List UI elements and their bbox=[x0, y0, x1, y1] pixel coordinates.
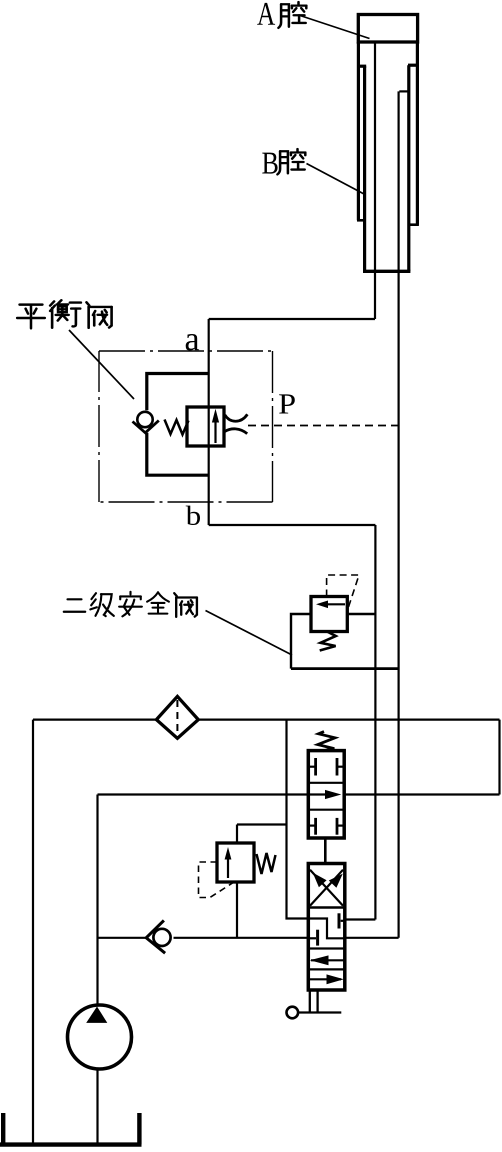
valve U1 spring top bbox=[318, 732, 335, 751]
wire tank return line left part bbox=[33, 718, 156, 720]
cylinder left upper step bbox=[358, 65, 366, 68]
wire A-line port right-top bbox=[345, 918, 376, 920]
cell3 arrow left bbox=[311, 959, 344, 961]
relief arrow left bbox=[324, 603, 345, 605]
valve U1 body bbox=[308, 751, 344, 838]
relief2 square bbox=[217, 843, 254, 882]
filter bbox=[156, 696, 198, 738]
relief2 spring W bbox=[257, 853, 276, 874]
wire B-pipe long vertical bbox=[398, 91, 400, 937]
label A腔 bbox=[257, 3, 275, 25]
cylinder left inner wall bbox=[363, 66, 366, 271]
cylinder right lower step bbox=[409, 223, 419, 226]
valve U1 top cell blocked ports bbox=[308, 766, 315, 768]
valve U1 divider 2 bbox=[308, 809, 344, 811]
valve U1 middle arrow bbox=[308, 793, 333, 795]
Z cell path bbox=[308, 919, 345, 939]
relief valve square bbox=[311, 597, 347, 632]
cell4 arrow right bbox=[309, 978, 341, 980]
wire left feed vertical bbox=[287, 720, 309, 919]
relief2 pilot dashed bbox=[199, 862, 233, 898]
leader B bbox=[307, 164, 365, 195]
check valve V1 seat bbox=[133, 421, 159, 433]
relief spring bbox=[320, 632, 336, 651]
lever stem lines bbox=[309, 990, 311, 1013]
wire relief2 top stub bbox=[236, 825, 238, 844]
wire left vertical to tank bbox=[32, 720, 34, 1146]
label 平衡阀 bbox=[17, 305, 45, 329]
wire A-line down to valve port bbox=[374, 525, 376, 920]
cylinder right inner wall bbox=[407, 65, 410, 271]
valve U2 divider 3 bbox=[308, 968, 345, 970]
balance valve enclosure chain box bbox=[99, 350, 273, 352]
wire supply line left segment bbox=[98, 793, 309, 795]
cylinder left outer wall bbox=[357, 42, 360, 220]
spring balance valve bbox=[165, 420, 189, 435]
wire relief outlet left bbox=[291, 614, 311, 669]
balance pilot valve square bbox=[187, 407, 224, 446]
valve U1 divider 1 bbox=[308, 782, 344, 784]
relief pilot dashed bbox=[327, 575, 359, 611]
wire pump riser bbox=[96, 795, 98, 1006]
wire pump delivery line bbox=[98, 937, 146, 939]
cylinder right upper step bbox=[408, 64, 417, 67]
cylinder cap rect bbox=[358, 15, 417, 43]
wire pump suction bbox=[96, 1069, 98, 1146]
cylinder bottom bbox=[363, 270, 410, 273]
arrow up inside balance valve bbox=[214, 419, 216, 443]
wire tank return line right part bbox=[198, 718, 499, 720]
lever knob circle bbox=[287, 1007, 299, 1019]
wire relief2 bottom stub bbox=[236, 882, 238, 938]
leader 平衡阀 bbox=[69, 330, 134, 399]
label 二级安全阀 bbox=[64, 599, 86, 611]
valve U1 bottom cell blocked ports bbox=[308, 824, 315, 826]
pump triangle bbox=[86, 1007, 107, 1023]
wire balance valve bottom to A-line bbox=[209, 524, 376, 526]
wire A to balance valve top bbox=[209, 318, 375, 320]
relief2 arrow up bbox=[227, 854, 229, 878]
wire relief outlet bottom to B-line bbox=[291, 667, 399, 670]
X cell diagonals bbox=[310, 870, 343, 906]
leader A bbox=[300, 16, 370, 39]
wire relief inlet bbox=[347, 613, 375, 615]
valve U2 divider 2 bbox=[308, 947, 345, 949]
wire supply line right segment bbox=[344, 793, 499, 795]
check valve V1 ball bbox=[137, 412, 152, 427]
wire branch pilot top bbox=[237, 823, 287, 825]
cylinder inner shoulder bbox=[399, 90, 408, 92]
node a bbox=[186, 334, 199, 351]
cylinder left lower step bbox=[357, 219, 365, 222]
leader 二级安全阀 bbox=[206, 611, 293, 656]
valve U2 divider X-cell bbox=[308, 906, 345, 909]
label B腔 bbox=[262, 153, 277, 174]
wire right vertical bbox=[498, 720, 500, 795]
pump circle bbox=[68, 1005, 132, 1069]
wire A-pipe from cap down bbox=[374, 42, 376, 319]
cylinder right outer wall bbox=[416, 42, 419, 225]
wire balance valve main vertical bbox=[208, 319, 210, 525]
wire pilot connector U1 to U2 bbox=[324, 838, 327, 864]
Z cell blocked port left-bottom bbox=[308, 937, 316, 939]
throttle wings bbox=[225, 414, 248, 421]
node P bbox=[279, 394, 295, 413]
Z cell blocked port right-top bbox=[341, 920, 345, 922]
node b bbox=[186, 506, 200, 525]
lever arm bbox=[299, 1011, 342, 1013]
pilot dashed line P bbox=[248, 425, 399, 427]
valve U2 body bbox=[308, 864, 345, 991]
balance valve body loop bbox=[147, 374, 209, 476]
wire B-line port right-bottom bbox=[345, 937, 399, 939]
